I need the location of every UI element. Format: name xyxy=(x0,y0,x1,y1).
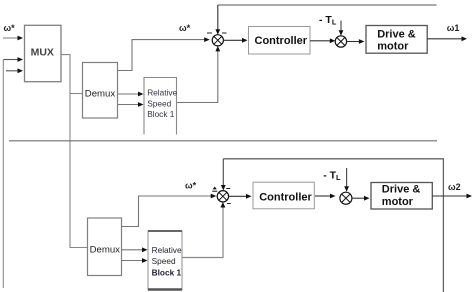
svg-text:Drive &: Drive & xyxy=(377,28,416,40)
wire left feedback vertical xyxy=(2,60,4,289)
summing junction S1 lower xyxy=(217,191,228,202)
wire feedback arrow 3 into MUX xyxy=(6,68,23,73)
wire upper Demux speed-ref output to summing junction xyxy=(118,37,210,70)
summing junction S1 upper xyxy=(212,35,223,46)
wire S2 to Drive and motor xyxy=(347,39,365,44)
wire upper RSB output to summing junction bottom input xyxy=(177,46,221,103)
wire TL input arrow upper xyxy=(339,21,344,36)
wire lower Controller to torque junction xyxy=(315,194,336,199)
wire lower feedback line top xyxy=(223,159,443,292)
minus sign right of top arrow xyxy=(222,32,227,34)
svg-text:Demux: Demux xyxy=(85,89,116,100)
svg-text:ω*: ω* xyxy=(185,181,197,191)
wire feedback arrow 2 into MUX xyxy=(3,57,23,62)
svg-text:Controller: Controller xyxy=(259,192,312,204)
svg-text:Relative: Relative xyxy=(147,88,177,98)
wire omega2 output arrow xyxy=(432,194,472,199)
Demux upper block xyxy=(83,63,118,119)
svg-text:Controller: Controller xyxy=(255,35,308,47)
wire feedback vertical into lower summing junction xyxy=(221,159,226,191)
plus mark left of lower junction top arrow xyxy=(212,187,217,192)
svg-text:Block 1: Block 1 xyxy=(147,109,175,119)
wire lower S2 to Drive and motor xyxy=(352,196,370,201)
svg-text:Demux: Demux xyxy=(90,244,121,255)
Relative Speed Block 1 lower xyxy=(148,231,182,290)
summing junction S2 upper xyxy=(335,36,346,47)
wire upper Demux output arrow A to Relative Speed Block xyxy=(118,92,144,97)
MUX block xyxy=(25,25,62,81)
svg-text:ω2: ω2 xyxy=(448,182,461,192)
svg-text:Speed: Speed xyxy=(147,98,171,108)
Drive and motor upper block xyxy=(366,26,427,54)
wire S1 to Controller xyxy=(223,38,247,43)
Controller upper block xyxy=(249,27,311,55)
wire lower RSB output to summing junction bottom input xyxy=(182,202,225,258)
wire MUX output to upper Demux and lower Demux xyxy=(61,55,88,248)
svg-text:MUX: MUX xyxy=(31,47,54,59)
Drive and motor lower block xyxy=(371,183,432,210)
wire TL input arrow lower xyxy=(344,168,349,192)
wire Controller to torque junction xyxy=(310,38,335,43)
wire feedback vertical into upper summing junction xyxy=(215,5,220,35)
wire lower Demux output arrow B to Relative Speed Block xyxy=(122,258,148,263)
svg-text:Relative: Relative xyxy=(152,245,182,255)
Demux lower block xyxy=(88,218,122,276)
minus sign left of top arrow xyxy=(207,32,212,34)
svg-text:ω*: ω* xyxy=(4,23,16,33)
svg-text:ω*: ω* xyxy=(179,23,191,33)
summing junction S2 lower xyxy=(340,192,352,204)
svg-text:ω1: ω1 xyxy=(447,23,460,33)
svg-text:Speed: Speed xyxy=(152,256,176,266)
svg-text:- TL: - TL xyxy=(323,170,341,183)
wire omega1 output arrow xyxy=(427,36,467,41)
wire lower Demux speed-ref output to summing junction xyxy=(122,194,217,227)
wire upper Demux output arrow B to Relative Speed Block xyxy=(118,102,144,107)
svg-text:motor: motor xyxy=(382,196,414,208)
svg-text:- TL: - TL xyxy=(319,14,337,27)
minus sign lower-right of lower junction xyxy=(227,203,231,205)
svg-text:motor: motor xyxy=(377,41,409,53)
svg-text:Drive &: Drive & xyxy=(382,183,421,195)
Controller lower block xyxy=(253,182,314,209)
wire top feedback horizontal line xyxy=(218,4,437,6)
wire omega* input arrow into MUX xyxy=(3,36,23,41)
svg-text:Block 1: Block 1 xyxy=(152,267,182,277)
wire omega1 feedback middle separator line xyxy=(9,140,437,142)
wire lower S1 to Controller xyxy=(229,194,252,199)
minus sign right of lower top arrow xyxy=(226,188,230,190)
Relative Speed Block 1 upper xyxy=(144,78,178,135)
wire lower Demux output arrow A to Relative Speed Block xyxy=(122,247,148,252)
